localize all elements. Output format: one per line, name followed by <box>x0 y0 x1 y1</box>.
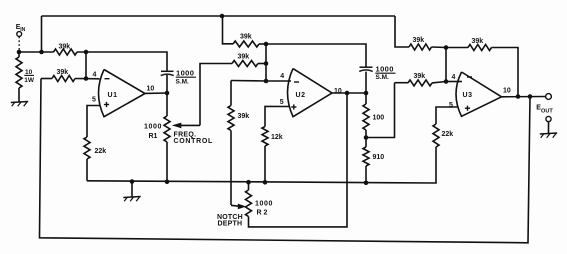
svg-text:R1: R1 <box>149 133 158 140</box>
svg-text:S.M.: S.M. <box>376 74 390 81</box>
svg-text:U2: U2 <box>296 92 306 99</box>
svg-text:12k: 12k <box>271 134 283 141</box>
svg-text:10: 10 <box>503 88 511 95</box>
svg-text:39k: 39k <box>414 73 426 80</box>
svg-text:CONTROL: CONTROL <box>174 138 214 145</box>
svg-text:U1: U1 <box>108 92 118 99</box>
svg-text:DEPTH: DEPTH <box>218 221 243 228</box>
svg-text:39k: 39k <box>240 33 252 40</box>
svg-text:100: 100 <box>373 115 385 122</box>
svg-text:39k: 39k <box>57 69 69 76</box>
svg-text:22k: 22k <box>95 148 107 155</box>
svg-text:10: 10 <box>25 69 33 76</box>
svg-text:OUT: OUT <box>541 108 553 114</box>
svg-text:39k: 39k <box>413 37 425 44</box>
svg-text:39k: 39k <box>238 54 250 61</box>
svg-text:22k: 22k <box>442 131 454 138</box>
svg-text:U3: U3 <box>463 92 473 99</box>
svg-text:1W: 1W <box>24 77 35 84</box>
svg-text:1000: 1000 <box>376 64 394 73</box>
svg-text:1000: 1000 <box>176 68 194 77</box>
svg-text:4: 4 <box>93 71 97 78</box>
svg-text:10: 10 <box>147 86 155 93</box>
svg-text:910: 910 <box>373 154 385 161</box>
svg-text:5: 5 <box>92 97 96 104</box>
svg-text:1000: 1000 <box>255 200 273 207</box>
svg-text:39k: 39k <box>238 113 250 120</box>
svg-text:5: 5 <box>449 102 453 109</box>
svg-text:S.M.: S.M. <box>176 78 190 85</box>
svg-text:10: 10 <box>334 88 342 95</box>
svg-text:IN: IN <box>20 27 25 33</box>
svg-text:1000: 1000 <box>144 123 162 130</box>
svg-text:4: 4 <box>452 74 456 81</box>
svg-text:39k: 39k <box>59 43 71 50</box>
svg-text:5: 5 <box>280 99 284 106</box>
svg-text:R 2: R 2 <box>257 209 268 216</box>
svg-text:4: 4 <box>280 73 284 80</box>
svg-text:39k: 39k <box>472 38 484 45</box>
